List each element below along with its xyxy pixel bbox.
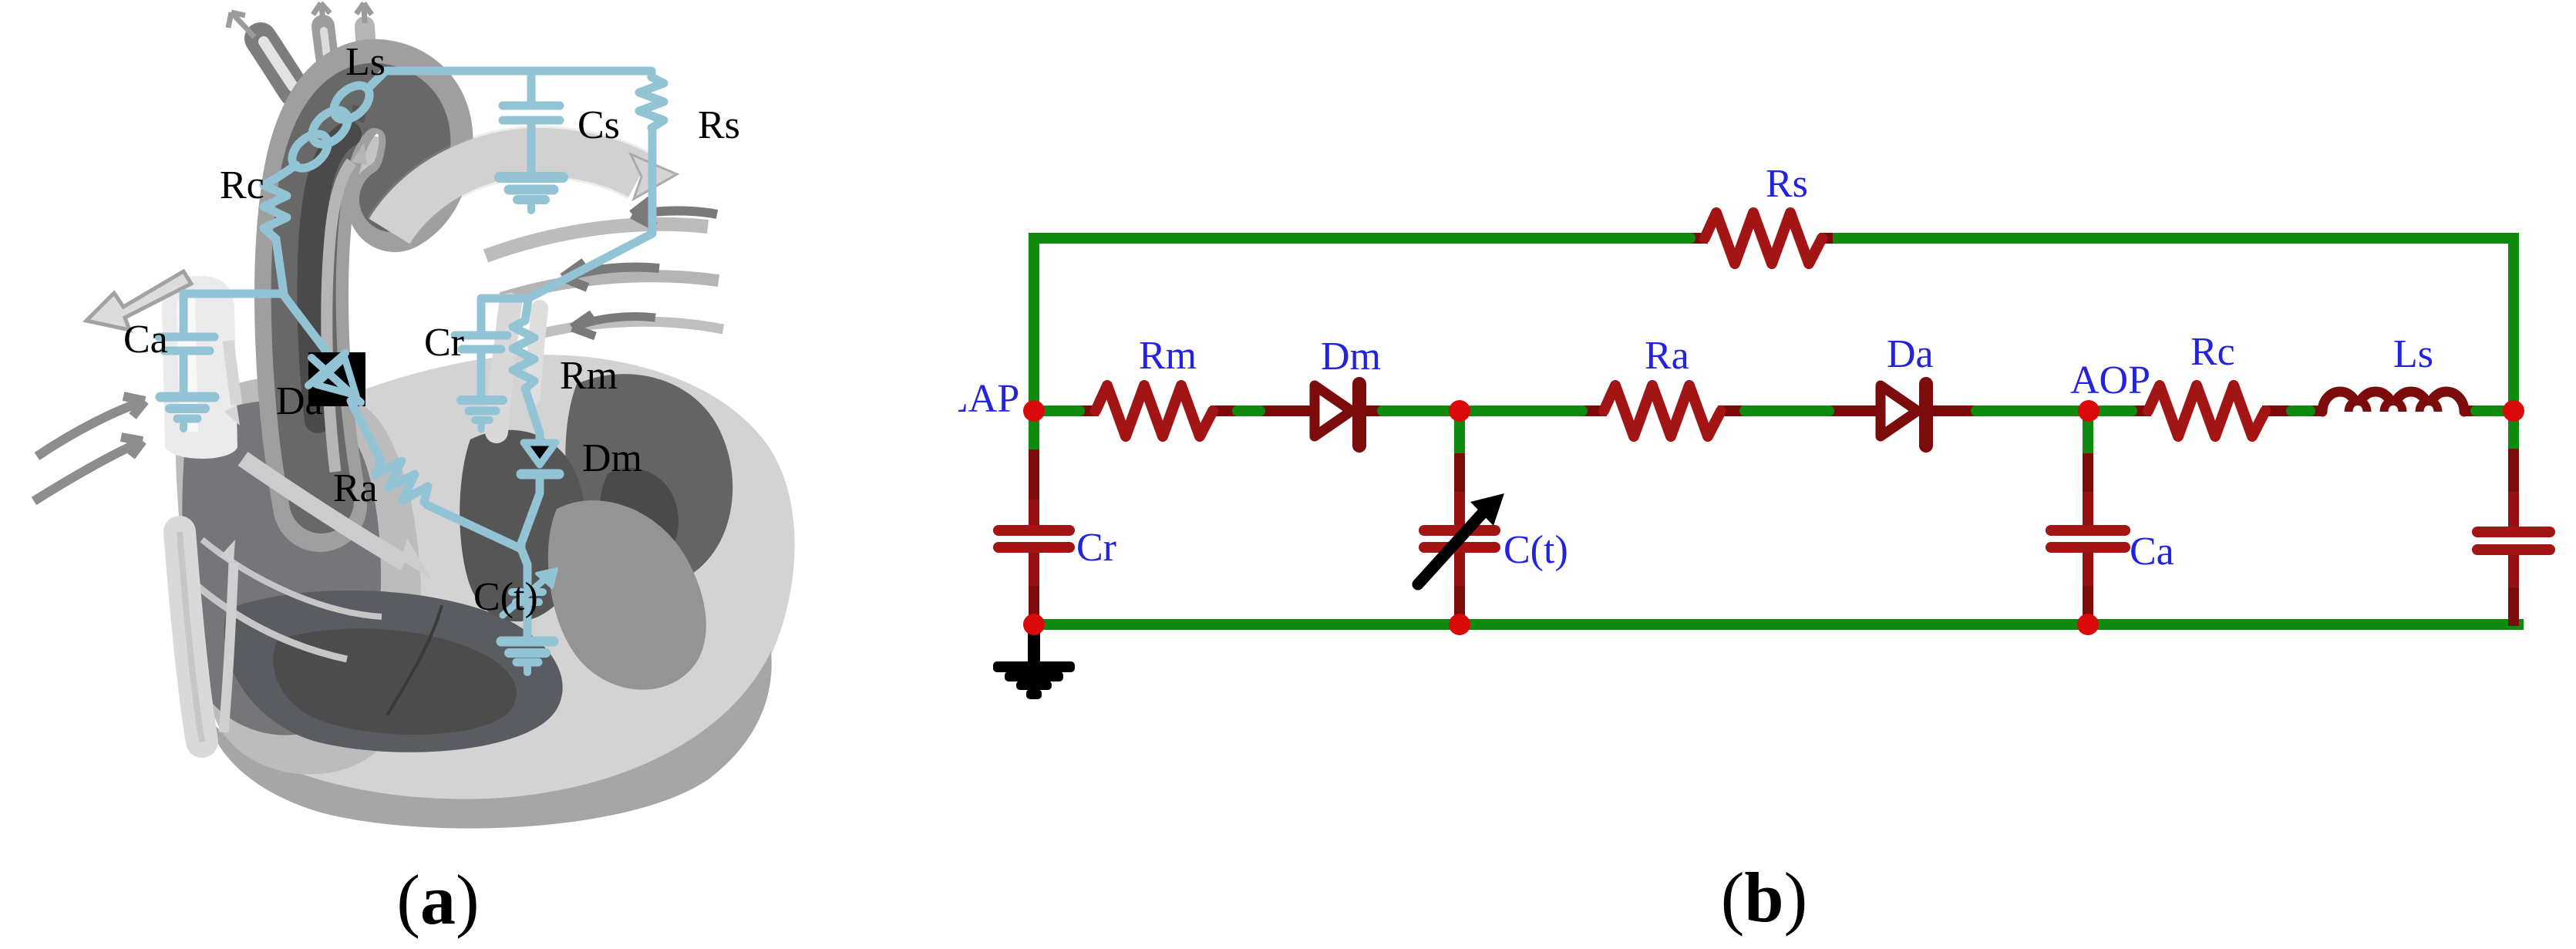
node C(t) top junction <box>1449 400 1470 422</box>
capacitor Ca (a) <box>180 294 188 331</box>
trabecular pale arcs <box>187 540 382 659</box>
PANEL_A_START <box>34 3 795 829</box>
top vessel arrows <box>228 3 372 37</box>
aorta hook hole patch <box>333 136 404 200</box>
aorta inner dark channel <box>304 96 419 501</box>
aorta darkest streak <box>311 134 349 420</box>
wire: right vertical green <box>2508 238 2519 453</box>
svg-text:Rc: Rc <box>220 163 264 207</box>
resistor Ra <box>1604 385 1721 436</box>
interior diag mid blob <box>548 500 706 690</box>
svg-text:Ls: Ls <box>2393 332 2433 376</box>
svg-text:Dm: Dm <box>582 436 642 480</box>
left big arrow out <box>86 271 191 330</box>
node AOP junction <box>2078 400 2100 422</box>
svg-text:Dm: Dm <box>1321 335 1381 379</box>
ground <box>993 626 1075 699</box>
capacitor C(t) plates (variable) <box>1424 530 1495 547</box>
wire Rc to Ca corner and Da <box>276 239 284 294</box>
svg-text:Rs: Rs <box>1766 162 1808 206</box>
capacitor Cr plates <box>998 530 1069 547</box>
capacitor Ca plates <box>2051 530 2125 547</box>
resistor Rm (a) <box>513 301 534 389</box>
resistor Rc (a) <box>264 177 287 239</box>
svg-text:C(t): C(t) <box>473 575 538 619</box>
wire top (a) <box>386 67 652 76</box>
left atrium dark interior <box>182 401 381 735</box>
C(t) arrow (a) <box>503 578 546 615</box>
seam line <box>387 605 442 715</box>
svg-text:Cs: Cs <box>577 103 620 147</box>
bottom rim darker band <box>207 651 772 829</box>
wire: mid rail green segments <box>1034 406 2514 416</box>
right branch dark arrow curls <box>563 199 717 336</box>
small dark arrows inside aorta top <box>349 108 364 123</box>
heart base big mass <box>187 355 795 807</box>
PANEL_B_START <box>993 213 2550 699</box>
bottom-left interior dark <box>224 591 563 752</box>
svg-text:Ca: Ca <box>2130 530 2174 574</box>
top back vessel tubes <box>261 26 369 91</box>
inductor Ls (a) coil <box>286 71 386 175</box>
bottom-left deepest <box>273 628 517 735</box>
wire Rm to Dm <box>525 389 540 443</box>
svg-text:(a): (a) <box>396 860 479 939</box>
node Ls right junction <box>2503 400 2524 422</box>
wire: top rail green right part <box>1838 233 2514 244</box>
label LAP (clipped L) <box>944 377 1019 421</box>
diode Da (a) black square <box>308 352 365 406</box>
capacitor C(t) (a) <box>512 588 543 596</box>
big pale arrow to ventricle <box>243 459 405 563</box>
inductor Ls <box>2322 392 2464 412</box>
left atrium ring <box>176 377 422 774</box>
svg-text:Ra: Ra <box>333 466 378 510</box>
svg-text:Ca: Ca <box>123 318 168 362</box>
ground Cs (a) <box>500 172 563 183</box>
svg-text:Da: Da <box>276 379 323 423</box>
svg-text:Cr: Cr <box>1076 526 1116 570</box>
diode Dm (a) <box>524 443 556 465</box>
wire horizontal to Cr <box>481 294 528 303</box>
svg-text:Rs: Rs <box>698 103 740 147</box>
node Cr bottom junction <box>1023 614 1045 635</box>
wire: Ca branch green stub <box>2083 411 2093 456</box>
pulmonary trunk pale band <box>389 152 640 231</box>
wire: C(t) branch green stub <box>1454 411 1465 456</box>
capacitor Cr (a) <box>477 298 486 330</box>
capacitor C(t) variable arrow <box>1418 493 1504 584</box>
pulmonary vein pale tubes <box>497 305 540 432</box>
right chamber core <box>600 468 679 566</box>
svg-text:Rm: Rm <box>560 354 618 398</box>
svg-text:Rm: Rm <box>1139 334 1197 378</box>
right top branch arcs <box>486 224 723 336</box>
diode Da <box>1881 384 1926 446</box>
wire Da to Ra <box>351 401 381 460</box>
node C(t) bottom junction <box>1449 614 1470 635</box>
wire Ca branch horizontal <box>184 290 282 298</box>
capacitor Cs (a) <box>527 71 536 100</box>
capacitor Cr leads <box>1029 449 1039 626</box>
resistor Rs (a) <box>639 77 664 128</box>
pale arrow down left of aorta <box>228 341 237 405</box>
node LAP junction <box>1023 400 1045 422</box>
wire Rs down + diagonal <box>528 128 652 298</box>
diode Dm <box>1315 384 1359 446</box>
resistor Ra (a) diagonal <box>375 460 428 502</box>
svg-text:AOP: AOP <box>2070 358 2150 402</box>
SVC pale column <box>162 276 237 459</box>
wire junction to C(t) <box>521 549 527 586</box>
resistor Rc <box>2148 385 2265 436</box>
wire mid rail maroon underlays <box>1073 406 2478 416</box>
svg-text:(b): (b) <box>1721 858 1807 937</box>
pulmonary arrowhead <box>631 154 677 199</box>
svg-text:Da: Da <box>1887 332 1934 376</box>
capacitor Ca leads <box>2083 453 2093 626</box>
resistor Rm <box>1096 385 1213 436</box>
wire Rs branch <box>648 74 656 77</box>
central dark channel <box>460 430 585 621</box>
capacitor Cs (right branch) plates <box>2477 532 2550 550</box>
wire: bottom rail green <box>1034 619 2518 630</box>
left bottom arrows <box>34 396 145 501</box>
svg-text:Ls: Ls <box>345 40 386 84</box>
wire coil to Rc <box>278 165 296 177</box>
resistor Rs <box>1705 213 1822 264</box>
ground C(t) (a) <box>501 637 554 647</box>
wire top rail maroon underlay <box>1685 233 1708 244</box>
IVC up arrow <box>224 563 234 732</box>
node Ca bottom junction <box>2077 614 2099 635</box>
svg-text:Ra: Ra <box>1645 334 1689 378</box>
svg-text:C(t): C(t) <box>1504 528 1568 572</box>
aorta outer band <box>301 86 426 505</box>
svg-text:Rc: Rc <box>2190 330 2235 374</box>
capacitor C(t) leads <box>1454 453 1465 626</box>
wire Ra to junction <box>427 505 521 549</box>
ground Ca (a) <box>160 392 214 402</box>
svg-text:Cr: Cr <box>424 321 464 365</box>
ground Cr (a) <box>461 395 503 405</box>
right chamber dark <box>565 374 732 588</box>
aorta lumen pale arrow <box>327 162 352 472</box>
BLUE OVERLAY CIRCUIT <box>159 71 664 672</box>
capacitor Cs (right branch) leads <box>2508 449 2519 626</box>
IVC pale tube <box>180 532 202 742</box>
wire: left vertical green <box>1029 238 1039 455</box>
wire: top rail green left part <box>1034 233 1690 244</box>
